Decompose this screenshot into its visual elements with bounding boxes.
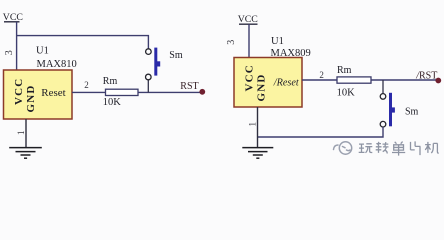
power VCC symbol (left) — [4, 21, 20, 23]
op IC body U1 MAX810 — [4, 70, 73, 119]
svg-text:VCC: VCC — [238, 14, 258, 25]
switch Sm bottom contact — [146, 74, 152, 80]
switch Sm actuator bar — [154, 48, 157, 76]
wire U1 pin 1 down to ground (right) — [257, 107, 259, 148]
watermark logo doodle — [334, 142, 352, 154]
svg-text:10K: 10K — [103, 97, 122, 108]
svg-text:3: 3 — [226, 40, 237, 45]
wire U1 pin 1 to ground — [25, 119, 27, 148]
node RST dot — [199, 89, 205, 95]
wire resistor to RST node — [138, 91, 201, 93]
switch Sm (left): wire from bottom contact to RST line — [147, 80, 149, 93]
switch Sm stem — [157, 61, 160, 66]
wire pin 2 to resistor Rm (right) — [302, 79, 337, 81]
watermark text 玩转单片机 (drawn strokes) — [359, 141, 439, 155]
switch Sm top contact (right) — [380, 94, 386, 100]
svg-text:VCC: VCC — [243, 64, 255, 91]
glyph 单 — [392, 142, 405, 156]
svg-text:VCC: VCC — [3, 12, 23, 23]
switch Sm actuator bar (right) — [389, 93, 392, 127]
svg-text:Reset: Reset — [41, 87, 65, 99]
svg-text:Sm: Sm — [169, 50, 183, 61]
svg-text:U1: U1 — [36, 46, 49, 57]
wire top rail to switch — [17, 36, 149, 49]
wire resistor to /RST node — [371, 79, 438, 81]
svg-text:3: 3 — [4, 50, 15, 55]
svg-text:10K: 10K — [337, 87, 356, 98]
switch Sm stem (right) — [392, 107, 395, 112]
switch Sm top contact — [146, 49, 152, 55]
node /RST dot — [435, 78, 441, 84]
svg-text:/RST: /RST — [415, 70, 437, 81]
IC body U1 MAX809 — [234, 58, 302, 108]
glyph 机 — [425, 142, 439, 153]
ground (right) — [242, 148, 273, 159]
svg-text:MAX810: MAX810 — [37, 59, 77, 70]
svg-text:U1: U1 — [271, 36, 284, 47]
svg-text:GND: GND — [256, 73, 268, 101]
ground (left) — [9, 148, 42, 159]
glyph 玩 — [359, 144, 373, 153]
svg-text:1: 1 — [249, 122, 259, 127]
svg-text:Rm: Rm — [337, 65, 352, 76]
wire switch bottom to ground rail — [258, 127, 384, 137]
svg-text:/Reset: /Reset — [273, 78, 300, 89]
svg-text:Rm: Rm — [103, 76, 118, 87]
svg-text:1: 1 — [17, 130, 27, 135]
switch Sm (right): stub from /RST line down — [382, 80, 384, 94]
svg-text:2: 2 — [319, 70, 324, 80]
svg-text:VCC: VCC — [13, 78, 25, 105]
glyph 片 — [411, 141, 421, 155]
power VCC symbol (right) — [239, 23, 258, 25]
glyph 转 — [376, 142, 389, 154]
svg-text:RST: RST — [180, 81, 198, 92]
wire pin 2 to resistor Rm — [72, 91, 106, 93]
wire VCC down to U1 pin 3 — [16, 22, 18, 70]
wire VCC to U1 pin 3 (right) — [248, 24, 250, 57]
svg-text:2: 2 — [84, 80, 89, 90]
svg-text:GND: GND — [25, 84, 37, 112]
switch Sm bottom contact (right) — [380, 121, 386, 127]
svg-text:Sm: Sm — [405, 106, 419, 117]
